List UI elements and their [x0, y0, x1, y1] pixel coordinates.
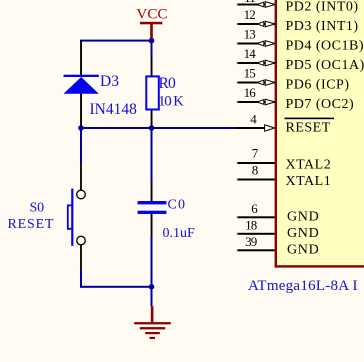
pin 8 XTAL1: [238, 163, 332, 189]
svg-text:R0: R0: [159, 75, 177, 92]
junction node RESET mid: [149, 125, 155, 131]
pin 13 PD4 (OC1B): [238, 26, 364, 53]
svg-text:13: 13: [244, 26, 256, 41]
svg-text:39: 39: [245, 234, 257, 249]
label RESET switch: [8, 217, 55, 232]
svg-text:15: 15: [244, 65, 256, 80]
IC U1 body ATmega16L-8AI: [275, 0, 364, 268]
pin 39 GND: [238, 234, 320, 258]
wire RESET net horizontal: [80, 127, 236, 129]
pin 14 PD5 (OC1A): [238, 46, 364, 73]
svg-text:C0: C0: [168, 197, 187, 212]
svg-text:IN4148: IN4148: [90, 101, 138, 118]
svg-text:PD7 (OC2): PD7 (OC2): [286, 97, 355, 112]
svg-text:16: 16: [244, 85, 257, 100]
label D3: [100, 73, 119, 90]
wire switch branch vertical: [80, 128, 82, 162]
label 0.1uF: [163, 226, 196, 241]
pin 6 GND: [238, 201, 320, 225]
capacitor C0: [138, 128, 167, 287]
svg-text:PD4 (OC1B): PD4 (OC1B): [286, 39, 364, 54]
pin 12 PD3 (INT1): [238, 7, 359, 34]
pin 7 XTAL2: [238, 146, 332, 173]
junction node RESET left: [78, 125, 84, 131]
svg-text:RESET: RESET: [8, 217, 55, 232]
pin 4 RESET: [236, 111, 335, 135]
wire switch bottom to ground node: [80, 271, 153, 288]
ground: [134, 287, 171, 339]
svg-text:ATmega16L-8A I: ATmega16L-8A I: [248, 278, 358, 294]
svg-text:VCC: VCC: [136, 7, 167, 23]
label C0: [168, 197, 187, 212]
svg-text:S0: S0: [30, 201, 45, 216]
junction node VCC: [149, 38, 155, 44]
svg-text:RESET: RESET: [286, 120, 331, 135]
junction node ground: [149, 284, 155, 290]
svg-text:GND: GND: [287, 226, 319, 241]
switch S0: [68, 162, 85, 271]
wire VCC junction to resistor: [151, 41, 153, 57]
pin 11 PD2 (INT0): [238, 0, 359, 15]
svg-text:11: 11: [244, 0, 255, 5]
label S0: [30, 201, 45, 216]
svg-text:0.1uF: 0.1uF: [163, 226, 196, 241]
svg-text:14: 14: [244, 46, 257, 61]
svg-text:PD2 (INT0): PD2 (INT0): [286, 0, 359, 15]
pin 15 PD6 (ICP): [238, 65, 350, 92]
svg-text:XTAL1: XTAL1: [286, 174, 332, 189]
svg-text:GND: GND: [287, 210, 319, 225]
svg-text:8: 8: [252, 163, 258, 178]
label 10 K: [158, 94, 184, 110]
svg-text:D3: D3: [100, 73, 119, 90]
svg-text:XTAL2: XTAL2: [286, 158, 332, 173]
svg-text:K: K: [173, 94, 184, 110]
label IN4148: [90, 101, 138, 118]
svg-text:PD3 (INT1): PD3 (INT1): [286, 19, 359, 34]
resistor R0: [146, 57, 159, 128]
power symbol VCC: [136, 7, 167, 41]
wire VCC top horizontal: [80, 40, 153, 42]
label R0: [159, 75, 177, 92]
diode D3: [64, 41, 99, 128]
svg-text:PD6 (ICP): PD6 (ICP): [286, 78, 350, 93]
svg-text:10: 10: [158, 94, 171, 110]
label ATmega16L-8AI: [248, 278, 358, 294]
pin 16 PD7 (OC2): [238, 85, 355, 112]
svg-text:GND: GND: [287, 243, 319, 258]
pin 18 GND: [238, 218, 320, 242]
grid tick artifacts: [80, 3, 239, 307]
svg-text:18: 18: [245, 218, 257, 233]
svg-text:PD5 (OC1A): PD5 (OC1A): [286, 58, 364, 73]
svg-text:12: 12: [244, 7, 256, 22]
